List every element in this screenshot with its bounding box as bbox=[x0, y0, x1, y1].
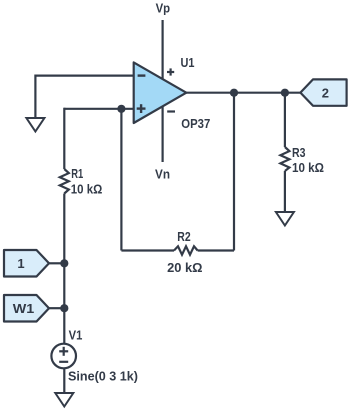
svg-text:Vn: Vn bbox=[155, 166, 170, 181]
op-amp positive supply plus sign bbox=[167, 68, 174, 75]
voltage source V1 circle bbox=[51, 344, 76, 369]
wire feedback left vertical bbox=[120, 109, 122, 251]
op-amp inverting input minus sign bbox=[138, 74, 146, 76]
svg-text:20 kΩ: 20 kΩ bbox=[167, 260, 202, 275]
wire flag 1 to node bbox=[49, 262, 64, 264]
terminal flag W1 bbox=[4, 295, 49, 322]
wire output from op-amp to terminal 2 bbox=[186, 92, 301, 94]
wire feedback bottom right segment bbox=[198, 249, 234, 251]
svg-text:U1: U1 bbox=[181, 55, 195, 70]
resistor R2 zigzag bbox=[174, 246, 198, 254]
junction dot at node 1 bbox=[60, 259, 68, 267]
wire feedback bottom left segment bbox=[121, 249, 174, 251]
junction dot at non-inverting input bbox=[117, 105, 125, 113]
terminal flag 1 bbox=[4, 250, 49, 277]
svg-text:R2: R2 bbox=[177, 229, 190, 244]
svg-text:10 kΩ: 10 kΩ bbox=[292, 160, 324, 175]
wire R3 branch upper bbox=[284, 93, 286, 147]
svg-text:10 kΩ: 10 kΩ bbox=[71, 181, 103, 196]
wire feedback right vertical bbox=[233, 93, 235, 251]
resistor R1 zigzag bbox=[60, 169, 69, 194]
svg-text:2: 2 bbox=[322, 86, 329, 101]
svg-text:V1: V1 bbox=[69, 327, 83, 342]
wire V1 to ground bbox=[63, 368, 65, 393]
op-amp negative supply minus sign bbox=[167, 110, 175, 112]
V1 minus sign bbox=[59, 361, 68, 363]
junction dot at node W1 bbox=[60, 304, 68, 312]
op-amp non-inverting input plus sign bbox=[137, 104, 146, 113]
svg-text:R3: R3 bbox=[292, 145, 306, 160]
wire R3 branch lower to ground bbox=[284, 171, 286, 212]
svg-text:Vp: Vp bbox=[156, 1, 171, 16]
op-amp U1 triangle bbox=[134, 62, 187, 123]
wire Vp supply vertical bbox=[162, 20, 164, 162]
wire R1 branch lower to V1 bbox=[63, 194, 65, 345]
svg-text:W1: W1 bbox=[13, 301, 35, 316]
wire R1 branch upper bbox=[63, 108, 65, 169]
ground below V1 bbox=[55, 393, 73, 407]
svg-text:1: 1 bbox=[17, 256, 24, 271]
svg-text:Sine(0 3 1k): Sine(0 3 1k) bbox=[68, 369, 138, 384]
junction dot at R3 branch bbox=[281, 89, 289, 97]
svg-text:R1: R1 bbox=[71, 166, 83, 181]
resistor R3 zigzag bbox=[280, 147, 289, 171]
svg-text:OP37: OP37 bbox=[181, 116, 210, 131]
ground at inverting input bbox=[26, 118, 44, 132]
wire stem to ground at inverting input bbox=[34, 75, 36, 119]
V1 plus sign bbox=[59, 347, 68, 356]
junction dot at output feedback bbox=[230, 89, 238, 97]
ground below R3 bbox=[276, 212, 294, 226]
wire flag W1 to node bbox=[49, 307, 64, 309]
terminal flag 2 bbox=[300, 79, 346, 105]
wire inverting input horizontal bbox=[35, 74, 133, 76]
wire non-inverting input horizontal bbox=[64, 108, 133, 110]
